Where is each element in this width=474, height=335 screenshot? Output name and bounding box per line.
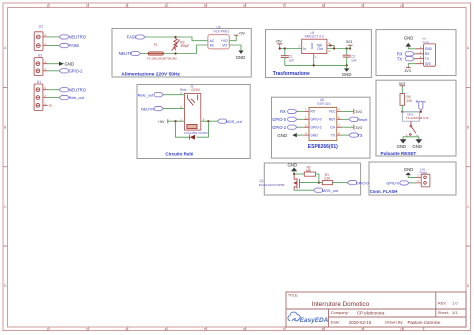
svg-text:8: 8 [322, 327, 324, 331]
svg-text:Pastore Carmine: Pastore Carmine [408, 320, 442, 325]
svg-text:MOS_out: MOS_out [226, 120, 243, 124]
wire VO to GND [229, 45, 241, 51]
net flag TX (serial) [397, 56, 416, 61]
power flag +5V [275, 40, 282, 44]
title block border [286, 292, 466, 327]
capacitor C2 [343, 49, 357, 66]
svg-text:Pulsante RESET: Pulsante RESET [381, 151, 417, 156]
svg-text:DC5V: DC5V [192, 88, 201, 92]
svg-text:RX: RX [280, 109, 286, 114]
frame row ticks left [3, 87, 8, 246]
svg-text:GND: GND [397, 144, 407, 149]
svg-text:HLK-PM01: HLK-PM01 [214, 29, 230, 33]
frame row ticks right [466, 87, 471, 246]
svg-text:GPIO-0: GPIO-0 [310, 118, 321, 122]
wire NEUTRO to fuse [141, 53, 149, 55]
wire U1 pin3 [48, 89, 59, 91]
svg-text:+5V: +5V [158, 120, 165, 124]
section box serial connector [376, 30, 456, 76]
wire switch to grounds [403, 137, 419, 140]
svg-text:GND: GND [342, 72, 352, 77]
svg-text:FASE: FASE [69, 43, 80, 48]
wire R1 to GPIO-0 [333, 182, 348, 184]
EasyEDA logo [288, 312, 329, 324]
wire Rele_out to relay pin4 [164, 94, 185, 96]
ground GND (esp) [277, 133, 304, 138]
svg-text:3V3: 3V3 [355, 126, 362, 130]
wire Q1 to MOS_out [294, 189, 313, 191]
section box MOSFET [264, 163, 360, 195]
wire +5V to regulator [280, 44, 302, 49]
svg-text:GND: GND [65, 61, 75, 66]
svg-text:GND: GND [236, 55, 246, 60]
resistor R1 [322, 173, 332, 185]
svg-text:Conn. FLASH: Conn. FLASH [370, 189, 398, 194]
svg-text:1N4148W C84367: 1N4148W C84367 [184, 131, 209, 135]
net flag NEUTRO (U1 pin3) [59, 87, 86, 92]
power flag 3V3 (reset) [399, 82, 406, 94]
junction Out node [333, 47, 335, 49]
ground GND (left) [397, 139, 407, 149]
wire U2 pin1 [48, 45, 59, 47]
svg-text:TX: TX [397, 56, 403, 61]
frame column ticks top [49, 3, 403, 8]
junction rail C2 [346, 64, 348, 66]
junction varistor bottom [174, 52, 176, 54]
module U6 HLK-PM01 [208, 26, 229, 49]
junction relay pin6 / diode right [207, 120, 209, 122]
connector U3 [34, 54, 48, 76]
svg-text:+5V: +5V [238, 32, 245, 36]
frame column ticks bottom [49, 327, 424, 331]
svg-text:10K: 10K [407, 99, 414, 103]
svg-text:8: 8 [322, 4, 324, 8]
wire R2 to gate node [316, 174, 319, 183]
wire FASE to module AC1 [145, 37, 208, 41]
relay J1 [180, 84, 201, 130]
power flag 3V3 (esp VCC) [342, 109, 362, 114]
ground GND (U3 pin2) [59, 61, 74, 66]
net flag MOS_out (mosfet) [313, 188, 339, 193]
svg-text:VO: VO [222, 43, 227, 47]
svg-text:1/1: 1/1 [452, 310, 458, 315]
svg-text:GPIO-0: GPIO-0 [386, 182, 399, 186]
sections [34, 24, 456, 195]
net flag FASE (U2 pin1) [59, 43, 79, 48]
svg-text:2: 2 [86, 4, 88, 8]
junction Reset stem [420, 111, 422, 113]
svg-text:Drawn By:: Drawn By: [385, 320, 403, 325]
svg-text:TITLE:: TITLE: [288, 294, 298, 298]
wire Tab [327, 45, 334, 48]
svg-text:GND: GND [310, 43, 314, 49]
wire +VO to +5V [229, 35, 236, 41]
junction C1 top [284, 47, 286, 49]
titleblock [286, 292, 466, 327]
svg-text:+5V: +5V [275, 40, 282, 44]
svg-text:GND: GND [310, 133, 318, 137]
junction +5V corner [279, 47, 281, 49]
svg-text:Alimentazione 220V 50Hz: Alimentazione 220V 50Hz [121, 71, 180, 77]
wire fuse to module AC2 [164, 45, 208, 54]
net flag GPIO-0 (esp) [272, 117, 304, 122]
net flag GPIO-0 (mosfet) [347, 181, 368, 186]
svg-text:10: 10 [400, 4, 404, 8]
frame row labels [4, 46, 470, 288]
svg-text:TS-10010A250T001BG: TS-10010A250T001BG [147, 56, 178, 60]
wire relay pin6 to MOS_out [201, 120, 218, 122]
junction varistor top [174, 36, 176, 38]
svg-text:3: 3 [125, 4, 127, 8]
switch SW1 [403, 112, 429, 138]
svg-text:EasyEDA: EasyEDA [300, 317, 329, 324]
wire U2 pin2 [48, 36, 59, 38]
wire U1 pin2 [48, 97, 59, 99]
bottom rail [285, 64, 347, 66]
svg-text:2020-02-16: 2020-02-16 [349, 320, 372, 325]
junction R4 bottom [401, 111, 403, 113]
connector U2 [34, 24, 48, 50]
net flag Reset (esp RST) [342, 117, 368, 122]
ground GND (regulator) [342, 65, 352, 77]
svg-text:7: 7 [283, 4, 285, 8]
net flag Rele_out (U1 pin2) [59, 96, 85, 101]
wire U3 pin1 [48, 70, 59, 72]
svg-text:Circuito Relé: Circuito Relé [165, 151, 193, 156]
svg-text:NEUTRO: NEUTRO [69, 35, 86, 40]
svg-text:Rele_out: Rele_out [138, 93, 154, 97]
svg-text:1uF: 1uF [289, 58, 295, 62]
diode 1N4148W [184, 131, 209, 140]
svg-text:9: 9 [361, 4, 363, 8]
svg-text:Company:: Company: [331, 310, 349, 315]
svg-text:IRLML6402TRPBF: IRLML6402TRPBF [259, 183, 285, 187]
svg-text:ESP8266(01): ESP8266(01) [308, 144, 338, 150]
section box Trasformazione [266, 30, 372, 78]
svg-text:1: 1 [47, 4, 49, 8]
svg-text:NEUTRO: NEUTRO [69, 87, 86, 92]
junction relay pin1 / diode left [174, 120, 176, 122]
junction 3V3 stem [349, 47, 351, 49]
svg-text:U3: U3 [38, 54, 42, 58]
svg-text:B: B [4, 126, 6, 130]
net flag NEUTRO (relay) [141, 107, 164, 112]
svg-text:TS-1187A-B-C-B: TS-1187A-B-C-B [406, 116, 428, 120]
svg-text:In: In [303, 47, 306, 51]
net flag NEUTRO [119, 51, 141, 56]
svg-text:U2: U2 [39, 24, 43, 28]
svg-text:5: 5 [204, 4, 206, 8]
wire U3 pin2 [48, 63, 59, 65]
wire NEUTRO to relay pin3 [164, 108, 185, 110]
junction Q1 drain / GND [293, 173, 295, 175]
varistor R3 [172, 37, 190, 51]
net flag GPIO-0 (flash) [386, 181, 415, 186]
frame column labels [47, 4, 404, 331]
chip U8 ESP-01S [304, 98, 342, 140]
svg-text:10: 10 [400, 327, 404, 331]
net flag Rele_out (relay) [138, 93, 164, 98]
svg-text:7: 7 [283, 327, 285, 331]
svg-text:1uF: 1uF [351, 58, 357, 62]
junction C2 top [346, 47, 348, 49]
resistor R2 [304, 165, 315, 176]
svg-text:Rele_out: Rele_out [69, 96, 85, 100]
svg-text:RST: RST [329, 118, 336, 122]
svg-text:3.3K: 3.3K [324, 177, 331, 181]
svg-text:6: 6 [243, 327, 245, 331]
svg-text:GND: GND [425, 47, 433, 51]
power flag +5V (relay) [158, 119, 168, 124]
svg-text:Trasformazione: Trasformazione [273, 71, 310, 77]
svg-text:390pF: 390pF [180, 44, 189, 48]
svg-text:3V3: 3V3 [355, 110, 362, 114]
junction rail GND pin [313, 64, 315, 66]
svg-text:Interrutore Domotico: Interrutore Domotico [312, 301, 370, 308]
ground GND (flash) [404, 167, 416, 177]
regulator GND pin wire [313, 54, 315, 56]
svg-text:Date:: Date: [331, 320, 341, 325]
svg-text:AMS1117-3.3: AMS1117-3.3 [305, 35, 324, 39]
net flag Reset (button) [416, 100, 427, 110]
resistor R4 [400, 94, 413, 106]
net flag RX (esp) [280, 109, 304, 114]
svg-text:nc: nc [49, 104, 53, 108]
net flag RX (serial) [397, 52, 416, 57]
power flag 3V3 [346, 40, 353, 48]
svg-text:CP elettronica: CP elettronica [357, 310, 385, 315]
svg-text:GPIO-2: GPIO-2 [310, 126, 321, 130]
svg-text:GND: GND [277, 133, 287, 138]
wire gate node to R1 [319, 182, 322, 184]
svg-text:GND: GND [404, 36, 414, 41]
svg-text:4: 4 [165, 327, 167, 331]
power flag +5V [234, 32, 246, 36]
svg-text:1.0: 1.0 [452, 300, 458, 305]
svg-text:ESP-01S: ESP-01S [317, 102, 330, 106]
svg-text:GND: GND [404, 167, 414, 172]
svg-text:3: 3 [125, 327, 127, 331]
svg-text:conn: conn [423, 40, 430, 44]
net flag GPIO-2 (U3 pin1) [59, 68, 83, 73]
regulator U4 AMS1117-3.3 [298, 31, 330, 59]
svg-text:F1: F1 [154, 43, 158, 47]
diode D1 loop [176, 121, 190, 137]
svg-text:Out: Out [317, 47, 322, 51]
capacitor C1 [281, 49, 294, 66]
section box Pulsante RESET [376, 80, 456, 156]
svg-text:MOS_out: MOS_out [322, 189, 339, 193]
svg-text:REV:: REV: [438, 300, 447, 305]
svg-text:GPIO-0: GPIO-0 [356, 181, 369, 185]
wire GND junction to R2 [294, 173, 304, 175]
net flag MOS_out (relay) [217, 119, 242, 124]
net flag TX (esp) [342, 133, 363, 138]
wire +5V to relay pin1 [168, 120, 185, 122]
svg-text:AC: AC [210, 43, 215, 47]
svg-text:TX: TX [357, 133, 363, 138]
svg-text:3V3: 3V3 [404, 69, 411, 73]
svg-text:Sheet:: Sheet: [438, 311, 449, 315]
svg-text:5: 5 [204, 327, 206, 331]
section box Circuito Rele [137, 85, 250, 159]
svg-text:3V3: 3V3 [399, 82, 406, 86]
ground GND (serial) [404, 36, 416, 49]
section box Alimentazione 220V 50Hz [112, 29, 251, 78]
svg-text:9: 9 [361, 327, 363, 331]
fuse F1 [147, 43, 178, 61]
connector U1 [34, 80, 52, 110]
svg-text:B: B [467, 126, 469, 130]
ground GND (mosfet) [288, 162, 298, 174]
svg-text:GND: GND [412, 144, 422, 149]
svg-text:6: 6 [243, 4, 245, 8]
connector CN serial [415, 37, 435, 67]
junction gate node [318, 182, 320, 184]
gate wire [299, 182, 319, 184]
power flag 3V3 (esp CH) [342, 125, 362, 130]
section box Conn. FLASH [369, 162, 456, 195]
svg-text:VCC: VCC [329, 110, 337, 114]
ground GND (right) [412, 139, 422, 149]
svg-text:1: 1 [47, 327, 49, 331]
svg-text:3V3: 3V3 [425, 62, 431, 66]
svg-text:CH: CH [330, 126, 335, 130]
svg-text:4: 4 [165, 4, 167, 8]
wire R4 to switch row [402, 105, 421, 112]
junction Tab pin [329, 44, 331, 46]
svg-text:2: 2 [86, 327, 88, 331]
ground GND (module) [236, 51, 246, 60]
net flag GPIO-2 (esp) [272, 125, 304, 130]
svg-text:GPIO-2: GPIO-2 [69, 68, 84, 73]
transistor Q1 [259, 174, 300, 190]
svg-text:GPIO-2: GPIO-2 [272, 125, 287, 130]
power flag 3V3 (serial) [404, 64, 415, 73]
svg-text:Reset: Reset [357, 118, 368, 122]
net flag FASE [127, 35, 145, 40]
section box ESP8266 [272, 97, 371, 158]
svg-text:RX: RX [310, 110, 315, 114]
connector CN1 Flash [416, 168, 430, 187]
net flag NEUTRO (U2 pin2) [59, 35, 86, 40]
svg-text:GND: GND [288, 162, 298, 167]
wire Out to 3V3 [327, 48, 350, 50]
svg-text:GPIO-0: GPIO-0 [272, 117, 287, 122]
svg-text:3V3: 3V3 [346, 40, 353, 44]
